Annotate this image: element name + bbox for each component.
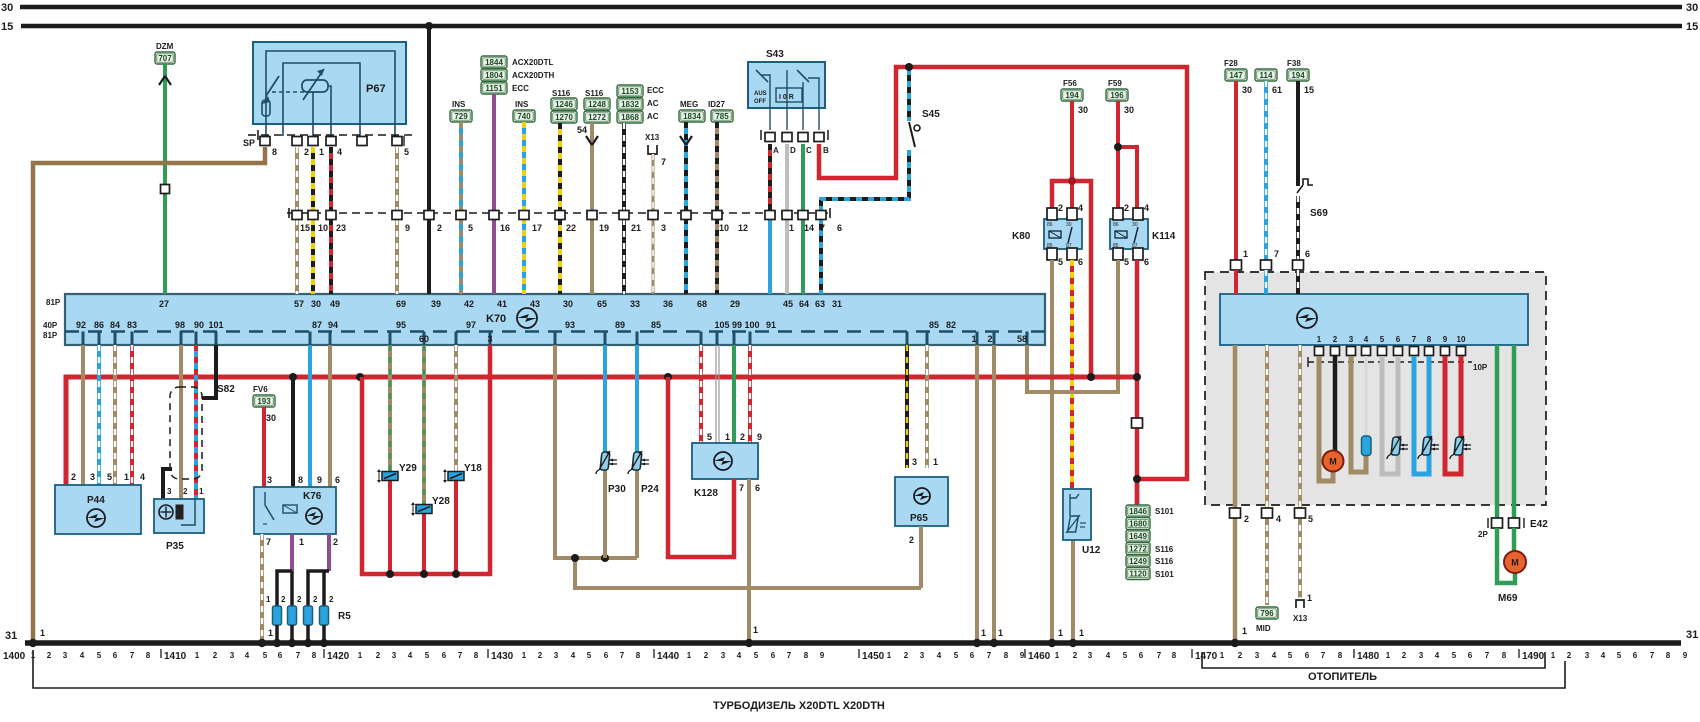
svg-text:2: 2 <box>1058 203 1063 213</box>
svg-text:S101: S101 <box>1155 507 1174 516</box>
svg-text:1: 1 <box>199 487 204 496</box>
svg-text:2: 2 <box>704 651 709 660</box>
svg-text:81P: 81P <box>43 331 58 340</box>
svg-text:ОТОПИТЕЛЬ: ОТОПИТЕЛЬ <box>1308 671 1377 683</box>
svg-text:1: 1 <box>981 628 986 638</box>
svg-text:6: 6 <box>335 475 340 485</box>
svg-text:1: 1 <box>1058 628 1063 638</box>
svg-text:3: 3 <box>487 334 492 344</box>
svg-text:89: 89 <box>615 320 625 330</box>
svg-text:90: 90 <box>194 320 204 330</box>
svg-text:R5: R5 <box>338 611 351 622</box>
svg-text:7: 7 <box>1485 651 1490 660</box>
svg-text:1: 1 <box>299 537 304 547</box>
svg-text:1680: 1680 <box>1129 520 1147 529</box>
svg-text:1: 1 <box>933 457 938 467</box>
svg-text:ECC: ECC <box>647 86 664 95</box>
svg-text:4: 4 <box>1144 203 1149 213</box>
svg-text:58: 58 <box>1017 334 1027 344</box>
svg-text:5: 5 <box>263 651 268 660</box>
svg-text:105: 105 <box>714 320 729 330</box>
svg-text:33: 33 <box>630 299 640 309</box>
svg-text:95: 95 <box>396 320 406 330</box>
svg-text:DZM: DZM <box>156 42 174 51</box>
svg-text:F28: F28 <box>1224 59 1238 68</box>
svg-text:3: 3 <box>267 475 272 485</box>
svg-text:9: 9 <box>757 432 762 442</box>
svg-text:2: 2 <box>71 472 76 482</box>
svg-text:60: 60 <box>419 334 429 344</box>
svg-text:7: 7 <box>739 483 744 493</box>
svg-text:3: 3 <box>912 457 917 467</box>
svg-text:S116: S116 <box>585 89 604 98</box>
svg-text:F59: F59 <box>1108 79 1122 88</box>
svg-text:4: 4 <box>1272 651 1277 660</box>
svg-text:INS: INS <box>452 100 466 109</box>
svg-text:Y29: Y29 <box>399 463 417 474</box>
svg-text:1: 1 <box>687 651 692 660</box>
svg-text:2: 2 <box>47 651 52 660</box>
svg-text:K128: K128 <box>694 488 718 499</box>
svg-text:1272: 1272 <box>1129 545 1147 554</box>
svg-text:K76: K76 <box>303 491 322 502</box>
svg-text:3: 3 <box>63 651 68 660</box>
svg-text:23: 23 <box>336 223 346 233</box>
svg-text:57: 57 <box>294 299 304 309</box>
svg-text:2: 2 <box>1124 203 1129 213</box>
svg-text:1151: 1151 <box>485 84 503 93</box>
svg-text:31: 31 <box>5 630 17 642</box>
svg-text:30: 30 <box>563 299 573 309</box>
svg-text:1249: 1249 <box>1129 557 1147 566</box>
svg-text:30: 30 <box>1066 222 1072 228</box>
svg-text:196: 196 <box>1110 91 1124 100</box>
svg-text:21: 21 <box>631 223 641 233</box>
svg-text:740: 740 <box>517 112 531 121</box>
svg-text:S116: S116 <box>1155 545 1174 554</box>
svg-text:85: 85 <box>651 320 661 330</box>
svg-text:83: 83 <box>127 320 137 330</box>
svg-text:5: 5 <box>1380 335 1385 344</box>
svg-text:8: 8 <box>146 651 151 660</box>
svg-text:1832: 1832 <box>621 100 639 109</box>
svg-text:6: 6 <box>442 651 447 660</box>
svg-text:10: 10 <box>318 223 328 233</box>
svg-text:1: 1 <box>789 223 794 233</box>
svg-text:10: 10 <box>1457 335 1466 344</box>
svg-text:4: 4 <box>1601 651 1606 660</box>
svg-text:5: 5 <box>97 651 102 660</box>
svg-text:1153: 1153 <box>621 87 639 96</box>
svg-text:4: 4 <box>245 651 250 660</box>
svg-text:SP: SP <box>243 138 255 148</box>
svg-text:P67: P67 <box>366 83 386 95</box>
svg-text:6: 6 <box>1305 651 1310 660</box>
svg-text:8: 8 <box>272 147 277 157</box>
svg-text:3: 3 <box>1088 651 1093 660</box>
svg-text:39: 39 <box>431 299 441 309</box>
svg-text:4: 4 <box>337 147 342 157</box>
svg-text:K80: K80 <box>1012 231 1031 242</box>
svg-text:7: 7 <box>987 651 992 660</box>
svg-text:7: 7 <box>458 651 463 660</box>
svg-text:87: 87 <box>312 320 322 330</box>
svg-text:1: 1 <box>1055 651 1060 660</box>
svg-text:2: 2 <box>281 595 286 604</box>
svg-text:3: 3 <box>554 651 559 660</box>
svg-text:1: 1 <box>998 628 1003 638</box>
svg-text:7: 7 <box>820 223 825 233</box>
svg-text:3: 3 <box>1419 651 1424 660</box>
svg-text:1480: 1480 <box>1357 651 1380 662</box>
svg-text:4: 4 <box>80 651 85 660</box>
svg-text:1: 1 <box>1220 651 1225 660</box>
svg-text:14: 14 <box>804 223 814 233</box>
svg-text:194: 194 <box>1065 91 1079 100</box>
svg-text:1: 1 <box>358 651 363 660</box>
svg-text:1: 1 <box>266 595 271 604</box>
svg-text:7: 7 <box>266 537 271 547</box>
svg-text:S69: S69 <box>1310 208 1328 219</box>
svg-text:Y18: Y18 <box>464 463 482 474</box>
svg-text:1: 1 <box>1079 628 1084 638</box>
svg-text:1470: 1470 <box>1195 651 1218 662</box>
svg-text:4: 4 <box>1364 335 1369 344</box>
svg-text:86: 86 <box>1113 222 1119 228</box>
svg-text:41: 41 <box>497 299 507 309</box>
svg-text:1649: 1649 <box>1129 532 1147 541</box>
svg-text:12: 12 <box>738 223 748 233</box>
svg-text:31: 31 <box>1686 629 1698 641</box>
svg-text:S101: S101 <box>1155 570 1174 579</box>
svg-text:92: 92 <box>76 320 86 330</box>
svg-text:4: 4 <box>408 651 413 660</box>
svg-text:8: 8 <box>1004 651 1009 660</box>
svg-text:147: 147 <box>1229 71 1243 80</box>
svg-text:F56: F56 <box>1063 79 1077 88</box>
svg-text:2: 2 <box>740 432 745 442</box>
svg-text:3: 3 <box>167 487 172 496</box>
svg-text:2: 2 <box>1073 651 1078 660</box>
svg-text:4: 4 <box>1078 203 1083 213</box>
svg-text:7: 7 <box>130 651 135 660</box>
svg-text:C: C <box>806 146 812 155</box>
svg-text:4: 4 <box>937 651 942 660</box>
svg-text:INS: INS <box>515 100 529 109</box>
svg-text:100: 100 <box>744 320 759 330</box>
svg-text:2: 2 <box>333 537 338 547</box>
svg-text:6: 6 <box>1144 257 1149 267</box>
svg-text:6: 6 <box>1396 335 1401 344</box>
svg-text:10P: 10P <box>1473 363 1488 372</box>
svg-text:82: 82 <box>946 320 956 330</box>
svg-text:P30: P30 <box>608 484 626 495</box>
svg-text:9: 9 <box>1020 651 1025 660</box>
svg-text:1868: 1868 <box>621 113 639 122</box>
svg-text:15: 15 <box>1686 21 1698 33</box>
svg-text:AC: AC <box>647 99 659 108</box>
svg-text:5: 5 <box>107 472 112 482</box>
svg-text:5: 5 <box>404 147 409 157</box>
svg-text:X13: X13 <box>1293 614 1308 623</box>
svg-text:30: 30 <box>1132 222 1138 228</box>
svg-text:3: 3 <box>90 472 95 482</box>
svg-text:1420: 1420 <box>327 651 350 662</box>
svg-text:3: 3 <box>230 651 235 660</box>
svg-text:4: 4 <box>1435 651 1440 660</box>
svg-text:85: 85 <box>929 320 939 330</box>
svg-text:1410: 1410 <box>164 651 187 662</box>
svg-text:93: 93 <box>565 320 575 330</box>
svg-text:6: 6 <box>755 483 760 493</box>
svg-text:A: A <box>773 146 779 155</box>
svg-text:8: 8 <box>474 651 479 660</box>
svg-text:8: 8 <box>1338 651 1343 660</box>
svg-text:7: 7 <box>1321 651 1326 660</box>
svg-text:30: 30 <box>1 2 13 14</box>
svg-text:30: 30 <box>1078 105 1088 115</box>
svg-text:16: 16 <box>500 223 510 233</box>
svg-text:98: 98 <box>175 320 185 330</box>
svg-text:54: 54 <box>577 125 587 135</box>
svg-text:1: 1 <box>1551 651 1556 660</box>
svg-text:29: 29 <box>730 299 740 309</box>
svg-text:5: 5 <box>1617 651 1622 660</box>
svg-text:K70: K70 <box>486 313 506 325</box>
svg-text:91: 91 <box>766 320 776 330</box>
svg-text:194: 194 <box>1291 71 1305 80</box>
svg-text:3: 3 <box>661 223 666 233</box>
svg-text:6: 6 <box>113 651 118 660</box>
svg-text:42: 42 <box>464 299 474 309</box>
svg-text:2: 2 <box>987 334 992 344</box>
svg-text:4: 4 <box>571 651 576 660</box>
svg-text:E42: E42 <box>1530 519 1548 530</box>
svg-text:84: 84 <box>110 320 120 330</box>
svg-text:7: 7 <box>620 651 625 660</box>
svg-text:S45: S45 <box>922 109 940 120</box>
svg-text:1248: 1248 <box>588 100 606 109</box>
svg-text:1490: 1490 <box>1522 651 1545 662</box>
svg-text:6: 6 <box>1305 249 1310 259</box>
svg-text:2: 2 <box>313 595 318 604</box>
svg-text:6: 6 <box>604 651 609 660</box>
svg-text:ACX20DTH: ACX20DTH <box>512 71 554 80</box>
svg-text:4: 4 <box>1276 514 1281 524</box>
svg-text:8: 8 <box>1502 651 1507 660</box>
svg-text:M69: M69 <box>1498 593 1518 604</box>
svg-text:4: 4 <box>737 651 742 660</box>
svg-text:8: 8 <box>1427 335 1432 344</box>
svg-text:1400: 1400 <box>3 651 26 662</box>
svg-text:9: 9 <box>1443 335 1448 344</box>
svg-text:B: B <box>823 146 829 155</box>
svg-text:ТУРБОДИЗЕЛЬ X20DTL X20DTH: ТУРБОДИЗЕЛЬ X20DTL X20DTH <box>713 700 885 712</box>
svg-text:1: 1 <box>319 147 324 157</box>
svg-text:63: 63 <box>815 299 825 309</box>
svg-text:MID: MID <box>1256 624 1271 633</box>
svg-text:7: 7 <box>1412 335 1417 344</box>
svg-text:7: 7 <box>661 157 666 167</box>
svg-text:3: 3 <box>1255 651 1260 660</box>
svg-text:M: M <box>1511 558 1519 568</box>
svg-text:1270: 1270 <box>555 113 573 122</box>
svg-text:61: 61 <box>1272 85 1282 95</box>
svg-text:AC: AC <box>647 112 659 121</box>
svg-text:2: 2 <box>183 487 188 496</box>
svg-text:101: 101 <box>208 320 223 330</box>
svg-text:69: 69 <box>396 299 406 309</box>
svg-text:1: 1 <box>522 651 527 660</box>
svg-text:30: 30 <box>266 413 276 423</box>
svg-text:193: 193 <box>257 397 271 406</box>
svg-text:S43: S43 <box>766 49 784 60</box>
svg-text:707: 707 <box>158 54 172 63</box>
svg-text:10: 10 <box>719 223 729 233</box>
svg-text:1: 1 <box>1317 335 1322 344</box>
svg-text:785: 785 <box>715 112 729 121</box>
svg-text:4: 4 <box>140 472 145 482</box>
svg-text:2: 2 <box>213 651 218 660</box>
svg-text:15: 15 <box>300 223 310 233</box>
svg-text:7: 7 <box>1157 651 1162 660</box>
svg-text:68: 68 <box>697 299 707 309</box>
svg-text:2: 2 <box>376 651 381 660</box>
svg-text:9: 9 <box>1683 651 1688 660</box>
svg-text:30: 30 <box>1686 2 1698 14</box>
svg-text:AUS: AUS <box>754 91 767 97</box>
svg-text:6: 6 <box>1139 651 1144 660</box>
svg-text:5: 5 <box>1288 651 1293 660</box>
svg-text:81P: 81P <box>46 298 61 307</box>
svg-text:30: 30 <box>1242 85 1252 95</box>
svg-text:1272: 1272 <box>588 113 606 122</box>
svg-text:1: 1 <box>268 628 273 638</box>
svg-text:43: 43 <box>530 299 540 309</box>
svg-text:X13: X13 <box>645 133 660 142</box>
svg-text:30: 30 <box>1124 105 1134 115</box>
svg-text:K114: K114 <box>1152 231 1176 242</box>
svg-text:45: 45 <box>783 299 793 309</box>
svg-text:P65: P65 <box>910 513 928 524</box>
svg-text:8: 8 <box>804 651 809 660</box>
svg-text:1: 1 <box>753 625 758 635</box>
svg-text:40P: 40P <box>43 321 58 330</box>
svg-text:7: 7 <box>1650 651 1655 660</box>
svg-text:S82: S82 <box>217 384 235 395</box>
svg-text:1440: 1440 <box>657 651 680 662</box>
svg-text:5: 5 <box>954 651 959 660</box>
svg-text:P44: P44 <box>87 495 105 506</box>
svg-text:1: 1 <box>1386 651 1391 660</box>
svg-text:1: 1 <box>725 432 730 442</box>
svg-text:1: 1 <box>887 651 892 660</box>
svg-text:5: 5 <box>1058 257 1063 267</box>
svg-text:8: 8 <box>312 651 317 660</box>
svg-text:5: 5 <box>754 651 759 660</box>
svg-text:2: 2 <box>1402 651 1407 660</box>
svg-text:8: 8 <box>1666 651 1671 660</box>
svg-text:30: 30 <box>311 299 321 309</box>
svg-text:15: 15 <box>1 21 13 33</box>
svg-text:ID27: ID27 <box>708 100 725 109</box>
svg-text:5: 5 <box>707 432 712 442</box>
svg-text:15: 15 <box>1304 85 1314 95</box>
svg-text:MEG: MEG <box>680 100 698 109</box>
svg-text:19: 19 <box>599 223 609 233</box>
svg-text:3: 3 <box>392 651 397 660</box>
svg-text:P24: P24 <box>641 484 659 495</box>
svg-text:86: 86 <box>94 320 104 330</box>
svg-text:4: 4 <box>1106 651 1111 660</box>
svg-text:5: 5 <box>1308 514 1313 524</box>
svg-text:99: 99 <box>732 320 742 330</box>
svg-text:49: 49 <box>330 299 340 309</box>
svg-text:2: 2 <box>297 595 302 604</box>
svg-text:1246: 1246 <box>555 100 573 109</box>
svg-text:1460: 1460 <box>1028 651 1051 662</box>
svg-text:ECC: ECC <box>512 84 529 93</box>
svg-text:3: 3 <box>1349 335 1354 344</box>
svg-text:5: 5 <box>468 223 473 233</box>
svg-text:64: 64 <box>799 299 809 309</box>
svg-text:97: 97 <box>466 320 476 330</box>
svg-text:2: 2 <box>1244 514 1249 524</box>
svg-text:1: 1 <box>195 651 200 660</box>
svg-text:6: 6 <box>1078 257 1083 267</box>
svg-text:796: 796 <box>1260 609 1274 618</box>
svg-text:8: 8 <box>298 475 303 485</box>
svg-text:36: 36 <box>663 299 673 309</box>
svg-text:22: 22 <box>566 223 576 233</box>
svg-text:6: 6 <box>278 651 283 660</box>
svg-text:17: 17 <box>532 223 542 233</box>
svg-text:2P: 2P <box>1478 530 1488 539</box>
svg-text:5: 5 <box>587 651 592 660</box>
svg-text:1834: 1834 <box>683 112 701 121</box>
svg-text:94: 94 <box>328 320 338 330</box>
svg-text:Y28: Y28 <box>432 496 450 507</box>
svg-text:2: 2 <box>1238 651 1243 660</box>
svg-text:6: 6 <box>970 651 975 660</box>
svg-text:1: 1 <box>971 334 976 344</box>
svg-text:7: 7 <box>296 651 301 660</box>
svg-text:6: 6 <box>1468 651 1473 660</box>
svg-text:1120: 1120 <box>1129 570 1147 579</box>
svg-text:2: 2 <box>1333 335 1338 344</box>
svg-text:8: 8 <box>1172 651 1177 660</box>
svg-text:1430: 1430 <box>491 651 514 662</box>
svg-text:M: M <box>1329 457 1337 467</box>
svg-text:8: 8 <box>636 651 641 660</box>
svg-text:3: 3 <box>1585 651 1590 660</box>
svg-text:D: D <box>790 146 796 155</box>
svg-text:7: 7 <box>1274 249 1279 259</box>
svg-text:5: 5 <box>1452 651 1457 660</box>
svg-text:114: 114 <box>1260 71 1273 80</box>
svg-text:7: 7 <box>787 651 792 660</box>
svg-text:1: 1 <box>1307 593 1312 603</box>
svg-text:6: 6 <box>837 223 842 233</box>
svg-text:1: 1 <box>1243 249 1248 259</box>
svg-text:5: 5 <box>1123 651 1128 660</box>
svg-text:3: 3 <box>920 651 925 660</box>
svg-text:1846: 1846 <box>1129 507 1147 516</box>
svg-text:2: 2 <box>904 651 909 660</box>
svg-text:9: 9 <box>317 475 322 485</box>
svg-text:9: 9 <box>405 223 410 233</box>
svg-text:2: 2 <box>437 223 442 233</box>
